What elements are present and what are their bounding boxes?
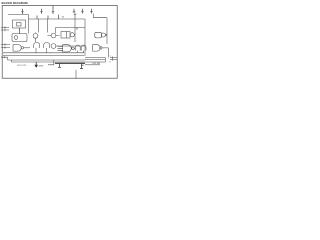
svg-text:GND: GND bbox=[39, 66, 44, 68]
svg-text:OUT EN: OUT EN bbox=[92, 63, 101, 65]
svg-text:BLOCK DIAGRAM: BLOCK DIAGRAM bbox=[2, 1, 29, 5]
svg-text:VCO CTL: VCO CTL bbox=[17, 65, 27, 67]
